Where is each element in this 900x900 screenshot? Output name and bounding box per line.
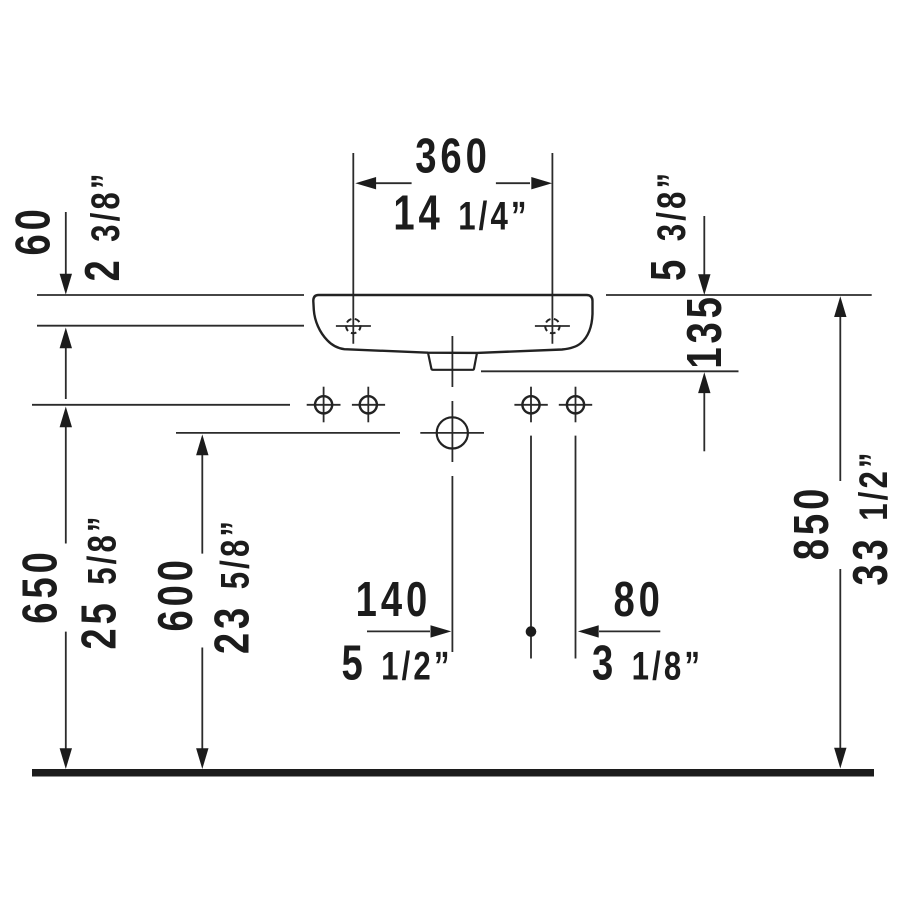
wall line right top (606, 294, 872, 296)
dim 650 line upper part (65, 426, 67, 544)
svg-text:14 1/4”: 14 1/4” (393, 186, 529, 241)
dim 600 line upper part (201, 453, 203, 554)
arrowhead 60 down (60, 274, 72, 295)
arrowhead 650 up (60, 407, 72, 428)
svg-text:2 3/8”: 2 3/8” (76, 170, 131, 281)
arrowhead 600 up (196, 434, 208, 455)
supply line right of right pair (575, 436, 577, 659)
drain level line (600) (176, 432, 400, 434)
small mounting hole 1 (315, 396, 332, 413)
dim 650 line lower part (65, 632, 67, 750)
faucet hole right dashed circle (545, 319, 559, 333)
svg-text:650: 650 (13, 548, 68, 623)
small hole 3 cross h (514, 404, 547, 406)
small mounting hole 3 (522, 396, 539, 413)
centerline of drain vertical seg2 (451, 401, 453, 462)
dim 360 extension line right / faucet centerline right (551, 153, 553, 344)
svg-text:5 1/2”: 5 1/2” (341, 636, 452, 691)
arrowhead 80 left (578, 625, 599, 637)
dim 80 line (599, 630, 660, 632)
svg-text:135: 135 (678, 293, 733, 368)
dim 135 lower tail (703, 392, 705, 451)
arrowhead 360 left (355, 177, 376, 189)
small hole 1 cross h (307, 404, 341, 406)
dim 60 lower tail (65, 347, 67, 399)
small hole 4 cross v (575, 387, 577, 423)
svg-text:23 5/8”: 23 5/8” (205, 518, 260, 654)
arrowhead 850 up (834, 296, 846, 317)
small hole 1 cross v (323, 387, 325, 423)
small mounting hole 4 (567, 396, 584, 413)
arrowhead 360 right (531, 177, 552, 189)
small hole 2 cross h (352, 404, 385, 406)
svg-text:600: 600 (149, 556, 204, 631)
arrowhead 135 up (698, 372, 710, 393)
dim 850 line lower part (839, 569, 841, 749)
svg-text:850: 850 (785, 485, 840, 560)
svg-text:80: 80 (613, 572, 663, 627)
dim 850 line upper part (839, 316, 841, 481)
faucet hole left cross horizontal (336, 325, 371, 327)
svg-text:33 1/2”: 33 1/2” (844, 449, 899, 585)
supply line left of right pair (530, 436, 532, 659)
wall line left second (37, 325, 304, 327)
svg-text:5 3/8”: 5 3/8” (642, 170, 697, 281)
centerline of drain vertical seg1 (451, 336, 453, 387)
drain hole circle (437, 417, 468, 448)
dim 60 upper tail (65, 212, 67, 275)
dim 360 line left segment (376, 182, 412, 184)
dim 600 line lower part (201, 648, 203, 751)
floor line (32, 769, 874, 777)
arrowhead 600 down (196, 748, 208, 769)
svg-text:25 5/8”: 25 5/8” (72, 513, 127, 649)
wall line left top (37, 294, 304, 296)
drain outlet below basin (428, 353, 477, 370)
drain circle horizontal centerline (420, 432, 484, 434)
reference dot on supply line (526, 626, 537, 637)
dim 5 3/8 tail above (703, 216, 705, 275)
arrowhead 850 down (834, 748, 846, 769)
svg-text:360: 360 (415, 129, 490, 184)
hole-row level line left (32, 404, 290, 406)
arrowhead 60 up (60, 328, 72, 349)
svg-text:3 1/8”: 3 1/8” (592, 636, 703, 691)
centerline of drain vertical seg3 (451, 476, 453, 652)
sink basin outline (313, 295, 592, 353)
svg-text:60: 60 (6, 205, 61, 255)
faucet hole left dashed circle (346, 319, 360, 333)
lower line right (135 bottom) (481, 370, 739, 372)
svg-text:140: 140 (356, 572, 431, 627)
small hole 2 cross v (367, 387, 369, 423)
dim 360 line right segment (496, 182, 530, 184)
faucet hole right cross horizontal (535, 325, 570, 327)
small hole 3 cross v (530, 387, 532, 423)
small hole 4 cross h (559, 404, 592, 406)
arrowhead 5 3/8 down (698, 274, 710, 295)
dim 140 line (367, 630, 430, 632)
dim 360 extension line left / faucet centerline left (352, 153, 354, 344)
arrowhead 650 down (60, 748, 72, 769)
arrowhead 140 right (431, 625, 452, 637)
small mounting hole 2 (360, 396, 377, 413)
